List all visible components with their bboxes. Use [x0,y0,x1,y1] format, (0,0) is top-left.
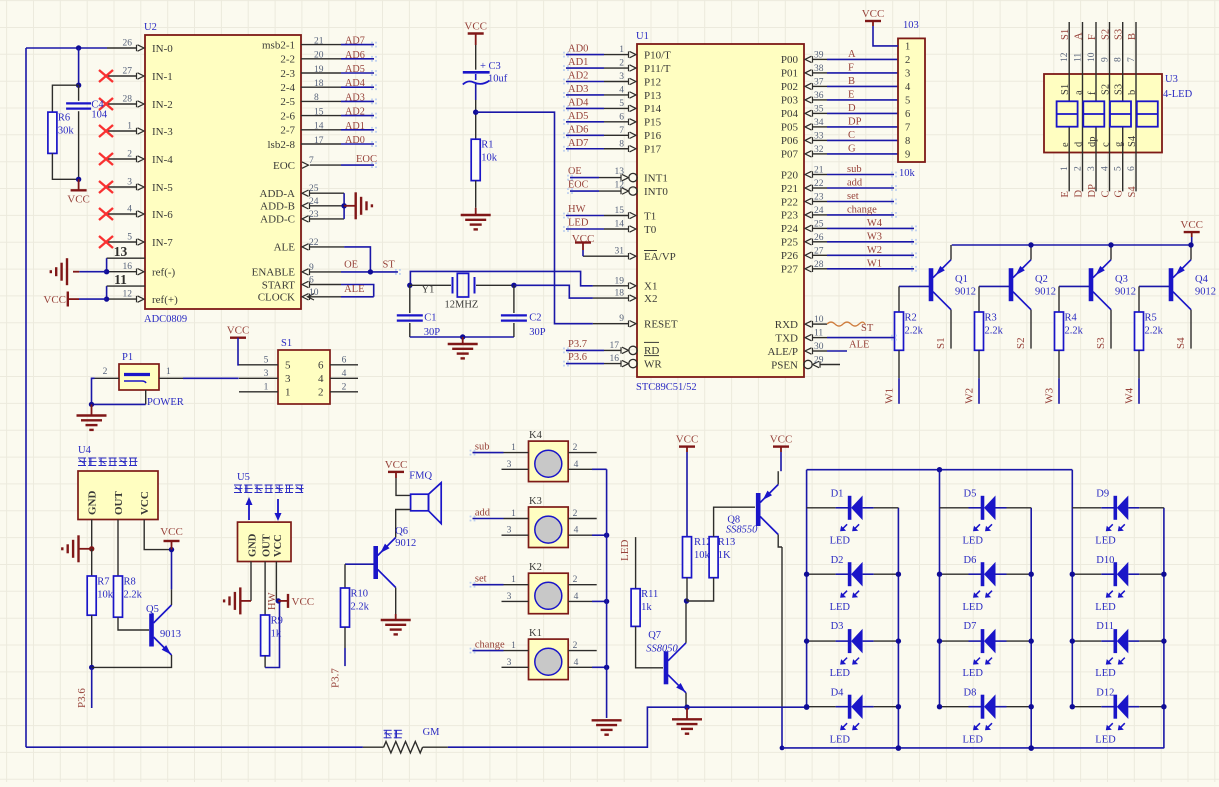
svg-text:IN-3: IN-3 [152,126,173,138]
svg-text:7: 7 [1127,57,1137,62]
svg-text:Q2: Q2 [1035,274,1048,285]
svg-text:AD3: AD3 [345,92,365,103]
svg-text:INT1: INT1 [644,172,668,184]
svg-text:37: 37 [814,77,824,87]
svg-text:Q7: Q7 [648,630,661,641]
svg-text:IN-6: IN-6 [152,209,173,221]
svg-text:15: 15 [314,107,324,117]
svg-text:S4: S4 [1127,135,1138,147]
svg-text:Q5: Q5 [146,604,159,615]
svg-text:LED: LED [619,540,631,561]
svg-text:S1: S1 [935,337,947,349]
svg-text:OE: OE [344,259,358,270]
svg-text:16: 16 [123,262,133,272]
svg-text:2.2k: 2.2k [985,326,1004,337]
svg-text:AD1: AD1 [568,57,588,68]
svg-text:LED: LED [568,218,589,229]
svg-text:9013: 9013 [160,629,181,640]
svg-text:set: set [475,574,487,585]
svg-text:2.2k: 2.2k [1145,326,1164,337]
svg-text:P01: P01 [781,68,798,80]
svg-text:S1: S1 [1060,29,1071,40]
svg-text:4: 4 [342,369,347,379]
svg-text:SS8550: SS8550 [726,525,758,536]
svg-text:P00: P00 [781,54,799,66]
svg-text:1: 1 [264,382,269,392]
svg-text:2-2: 2-2 [280,54,295,66]
svg-text:P3.7: P3.7 [568,339,587,350]
svg-text:EOC: EOC [273,160,295,172]
svg-text:34: 34 [814,118,824,128]
svg-text:16: 16 [610,354,620,364]
svg-text:4: 4 [574,592,579,602]
svg-text:25: 25 [814,219,824,229]
svg-text:D: D [848,103,856,114]
svg-text:2: 2 [103,367,108,377]
svg-text:LED: LED [830,602,851,613]
svg-text:K4: K4 [529,430,543,441]
svg-text:2-3: 2-3 [280,68,295,80]
svg-text:RXD: RXD [775,319,798,331]
svg-text:AD6: AD6 [345,50,365,61]
svg-text:R13: R13 [718,537,736,548]
svg-text:5: 5 [1114,166,1124,171]
svg-text:13: 13 [615,167,625,177]
svg-text:LED: LED [830,734,851,745]
svg-text:X1: X1 [644,281,657,293]
svg-text:VCC: VCC [385,459,408,471]
svg-text:ST: ST [383,259,396,270]
svg-text:K2: K2 [529,562,542,573]
svg-text:22: 22 [814,179,824,189]
svg-text:4: 4 [574,658,579,668]
svg-text:Q1: Q1 [955,274,968,285]
svg-text:VCC: VCC [770,434,793,446]
svg-text:33: 33 [814,131,824,141]
svg-text:3: 3 [264,369,269,379]
svg-text:AD4: AD4 [345,78,365,89]
svg-text:2: 2 [342,382,347,392]
svg-text:LED: LED [1095,536,1116,547]
svg-text:LED: LED [963,602,984,613]
svg-text:2-7: 2-7 [280,125,295,137]
svg-text:5: 5 [905,96,910,107]
svg-text:27: 27 [123,67,133,77]
svg-text:D4: D4 [831,687,845,698]
svg-text:18: 18 [314,79,324,89]
svg-text:1: 1 [511,509,516,519]
svg-text:31: 31 [615,247,625,257]
svg-text:2-6: 2-6 [280,110,295,122]
svg-text:LED: LED [963,536,984,547]
svg-text:36: 36 [814,91,824,101]
svg-text:S2: S2 [1101,84,1112,95]
svg-text:2.2k: 2.2k [905,326,924,337]
svg-text:10: 10 [1087,52,1097,62]
svg-text:set: set [847,191,859,202]
svg-text:F: F [848,62,854,73]
svg-text:G: G [848,143,856,154]
svg-text:RESET: RESET [644,319,678,331]
svg-text:W3: W3 [867,231,882,242]
svg-text:12MHZ: 12MHZ [445,300,479,311]
svg-text:23: 23 [814,193,824,203]
svg-text:AD7: AD7 [568,138,588,149]
svg-text:A: A [1074,32,1085,40]
svg-text:X2: X2 [644,293,657,305]
svg-text:c: c [1101,142,1112,147]
svg-text:OUT: OUT [262,534,273,557]
svg-text:P17: P17 [644,144,662,156]
svg-text:13: 13 [114,244,128,259]
svg-text:C: C [848,130,855,141]
svg-text:10: 10 [309,288,319,298]
svg-text:7: 7 [309,156,314,166]
svg-text:F: F [1087,34,1098,40]
svg-text:38: 38 [814,64,824,74]
svg-text:19: 19 [615,276,625,286]
svg-text:D11: D11 [1096,621,1114,632]
svg-text:17: 17 [314,136,324,146]
svg-text:D10: D10 [1096,555,1114,566]
svg-text:add: add [475,508,491,519]
svg-text:LED: LED [1095,734,1116,745]
svg-text:W1: W1 [884,388,896,404]
svg-text:LED: LED [963,734,984,745]
svg-text:S2: S2 [1015,337,1027,349]
svg-text:P23: P23 [781,210,799,222]
svg-text:W4: W4 [1124,387,1136,403]
svg-text:PSEN: PSEN [771,359,798,371]
svg-text:P24: P24 [781,223,799,235]
svg-text:P1: P1 [122,352,133,363]
svg-text:25: 25 [309,184,319,194]
svg-text:d: d [1074,141,1085,147]
svg-text:IN-1: IN-1 [152,71,173,83]
svg-text:4: 4 [127,205,132,215]
svg-text:W4: W4 [867,218,883,229]
svg-text:sub: sub [475,442,490,453]
svg-text:R6: R6 [58,113,70,124]
svg-text:21: 21 [814,166,824,176]
svg-text:Q4: Q4 [1195,274,1209,285]
svg-text:LED: LED [963,668,984,679]
svg-text:K1: K1 [529,628,542,639]
svg-text:30k: 30k [58,126,75,137]
svg-text:2-5: 2-5 [280,96,295,108]
svg-text:8: 8 [314,93,319,103]
svg-text:29: 29 [814,356,824,366]
svg-text:VCC: VCC [139,491,151,515]
svg-text:9012: 9012 [395,538,416,549]
svg-text:Y1: Y1 [422,285,435,296]
svg-text:4: 4 [619,85,624,95]
svg-text:10: 10 [814,315,824,325]
svg-text:30P: 30P [529,327,546,338]
svg-text:DP: DP [1087,184,1098,198]
svg-text:S2: S2 [1101,29,1112,40]
svg-text:P03: P03 [781,95,799,107]
svg-text:D8: D8 [964,687,977,698]
svg-text:10k: 10k [481,153,498,164]
svg-text:EOC: EOC [568,180,589,191]
svg-text:6: 6 [1127,166,1137,171]
svg-text:W3: W3 [1044,387,1056,403]
svg-text:9: 9 [905,150,910,161]
svg-text:IN-2: IN-2 [152,99,173,111]
svg-text:dp: dp [1087,137,1098,148]
svg-text:Q6: Q6 [395,526,408,537]
svg-text:4: 4 [574,526,579,536]
svg-text:1: 1 [511,641,516,651]
svg-text:P10/T: P10/T [644,49,671,61]
svg-text:K3: K3 [529,496,542,507]
svg-text:SS8050: SS8050 [646,643,678,654]
svg-text:39: 39 [814,50,824,60]
svg-text:G: G [1114,190,1125,198]
svg-text:26: 26 [814,233,824,243]
svg-text:28: 28 [814,260,824,270]
svg-text:ALE: ALE [849,340,869,351]
svg-text:3: 3 [507,658,512,668]
svg-text:D: D [1074,190,1085,198]
svg-text:ENABLE: ENABLE [252,267,296,279]
svg-text:1k: 1k [641,602,652,613]
svg-text:D9: D9 [1096,489,1109,500]
svg-text:14: 14 [615,220,625,230]
svg-text:e: e [1060,142,1071,147]
svg-text:OE: OE [568,166,582,177]
svg-text:T1: T1 [644,210,656,222]
svg-text:FMQ: FMQ [409,470,432,481]
svg-text:VCC: VCC [67,193,90,205]
svg-text:VCC: VCC [862,8,885,20]
svg-text:6: 6 [318,360,324,372]
svg-text:P3.6: P3.6 [76,688,88,708]
svg-text:E: E [1060,191,1071,197]
svg-text:R4: R4 [1065,313,1078,324]
svg-text:R8: R8 [124,577,136,588]
svg-text:AD2: AD2 [568,71,588,82]
svg-text:C2: C2 [529,313,541,324]
svg-text:U2: U2 [144,22,157,33]
svg-text:TXD: TXD [775,332,798,344]
svg-text:2.2k: 2.2k [124,590,143,601]
svg-text:8: 8 [905,136,910,147]
svg-text:12: 12 [1060,52,1070,62]
svg-text:WR: WR [644,358,662,370]
svg-text:10k: 10k [97,590,114,601]
svg-text:14: 14 [314,122,324,132]
svg-text:R9: R9 [271,616,283,627]
svg-text:3: 3 [507,592,512,602]
svg-text:ADD-C: ADD-C [260,214,295,226]
svg-text:11: 11 [814,329,823,339]
svg-text:VCC: VCC [292,596,315,608]
svg-text:15: 15 [615,206,625,216]
svg-text:D1: D1 [831,489,844,500]
svg-text:9012: 9012 [955,287,976,298]
svg-text:2-4: 2-4 [280,82,295,94]
svg-text:D3: D3 [831,621,844,632]
svg-text:12: 12 [123,290,133,300]
svg-text:INT0: INT0 [644,186,668,198]
svg-text:4: 4 [1101,166,1111,171]
svg-text:10k: 10k [694,550,711,561]
svg-text:32: 32 [814,145,824,155]
svg-text:D5: D5 [964,489,977,500]
svg-text:23: 23 [309,210,319,220]
svg-text:104: 104 [91,110,108,121]
svg-text:S1: S1 [281,338,292,349]
svg-text:VCC: VCC [43,294,66,306]
svg-text:7: 7 [905,123,910,134]
svg-text:U5: U5 [237,472,250,483]
svg-text:18: 18 [615,289,625,299]
svg-text:A: A [848,49,856,60]
svg-text:ref(+): ref(+) [152,294,178,306]
svg-text:LED: LED [830,536,851,547]
svg-text:D7: D7 [964,621,977,632]
svg-text:S3: S3 [1114,29,1125,40]
svg-text:2: 2 [619,59,624,69]
svg-text:2: 2 [573,509,578,519]
svg-text:3: 3 [905,69,910,80]
svg-text:R2: R2 [905,313,917,324]
svg-text:D12: D12 [1096,687,1114,698]
svg-text:AD1: AD1 [345,121,365,132]
svg-text:D2: D2 [831,555,844,566]
svg-text:6: 6 [309,276,314,286]
svg-text:W2: W2 [964,388,976,404]
svg-text:U4: U4 [78,445,92,456]
svg-text:g: g [1114,141,1125,147]
svg-text:change: change [847,204,877,215]
svg-text:P06: P06 [781,135,799,147]
svg-text:AD4: AD4 [568,97,589,108]
svg-text:ADD-A: ADD-A [260,188,295,200]
svg-text:B: B [1127,33,1138,40]
svg-text:P15: P15 [644,117,662,129]
svg-text:GND: GND [87,491,99,516]
svg-text:P12: P12 [644,76,661,88]
svg-text:LED: LED [830,668,851,679]
svg-text:3: 3 [507,460,512,470]
svg-text:9012: 9012 [1195,287,1216,298]
svg-text:CLOCK: CLOCK [258,292,295,304]
svg-text:P22: P22 [781,196,798,208]
svg-text:lsb2-8: lsb2-8 [268,139,296,151]
svg-text:4: 4 [574,460,579,470]
svg-text:S4: S4 [1175,337,1187,349]
svg-text:26: 26 [123,39,133,49]
svg-text:P07: P07 [781,149,799,161]
svg-text:VCC: VCC [676,434,699,446]
svg-text:1K: 1K [718,550,731,561]
svg-text:IN-5: IN-5 [152,182,173,194]
svg-text:103: 103 [903,20,919,31]
svg-text:IN-7: IN-7 [152,237,173,249]
svg-text:28: 28 [123,95,133,105]
svg-text:VCC: VCC [1180,219,1203,231]
svg-text:6: 6 [342,355,347,365]
svg-text:P27: P27 [781,264,799,276]
svg-text:ADD-B: ADD-B [260,201,295,213]
svg-text:S3: S3 [1114,84,1125,95]
svg-text:AD6: AD6 [568,124,588,135]
svg-text:8: 8 [619,139,624,149]
svg-text:P3.7: P3.7 [330,668,342,688]
svg-text:add: add [847,178,863,189]
svg-text:35: 35 [814,104,824,114]
svg-text:P14: P14 [644,103,662,115]
svg-text:AD5: AD5 [568,111,588,122]
svg-text:IN-4: IN-4 [152,154,173,166]
svg-text:C1: C1 [424,313,436,324]
svg-text:2: 2 [1074,166,1084,171]
svg-text:6: 6 [905,109,910,120]
svg-text:3: 3 [127,178,132,188]
svg-text:3: 3 [619,72,624,82]
svg-text:24: 24 [309,197,319,207]
svg-text:W2: W2 [867,245,882,256]
svg-text:10uf: 10uf [488,73,508,84]
svg-text:11: 11 [1074,53,1084,62]
svg-text:5: 5 [127,233,132,243]
svg-text:9: 9 [619,314,624,324]
svg-text:DP: DP [848,116,862,127]
svg-text:P04: P04 [781,108,799,120]
svg-text:7: 7 [619,126,624,136]
svg-text:ref(-): ref(-) [152,267,176,279]
svg-text:W1: W1 [867,258,882,269]
svg-text:ST: ST [861,323,874,334]
svg-text:change: change [475,640,505,651]
svg-text:17: 17 [610,341,620,351]
svg-text:Q3: Q3 [1115,274,1128,285]
svg-text:9012: 9012 [1115,287,1136,298]
svg-text:U1: U1 [636,31,649,42]
svg-text:P26: P26 [781,250,799,262]
svg-text:9: 9 [1101,57,1111,62]
svg-text:f: f [1087,91,1098,95]
svg-text:8: 8 [1114,57,1124,62]
svg-text:2: 2 [573,641,578,651]
svg-text:T0: T0 [644,224,657,236]
svg-text:4-LED: 4-LED [1163,89,1193,100]
svg-text:msb2-1: msb2-1 [262,39,295,51]
svg-text:VCC: VCC [160,526,183,538]
svg-text:1: 1 [127,122,132,132]
svg-text:OUT: OUT [113,491,125,516]
svg-text:22: 22 [309,238,319,248]
svg-text:VCC: VCC [464,21,487,33]
svg-text:ALE: ALE [344,284,364,295]
svg-text:11: 11 [114,272,127,287]
svg-text:R7: R7 [97,577,109,588]
svg-text:27: 27 [814,246,824,256]
svg-text:R3: R3 [985,313,997,324]
svg-text:ALE: ALE [274,242,296,254]
svg-text:IN-0: IN-0 [152,43,173,55]
svg-text:2.2k: 2.2k [351,602,370,613]
svg-text:LED: LED [1095,668,1116,679]
svg-text:S1: S1 [1060,84,1071,95]
svg-text:10k: 10k [899,168,916,179]
svg-text:EOC: EOC [356,154,377,165]
svg-text:24: 24 [814,206,824,216]
svg-text:GM: GM [423,727,441,738]
